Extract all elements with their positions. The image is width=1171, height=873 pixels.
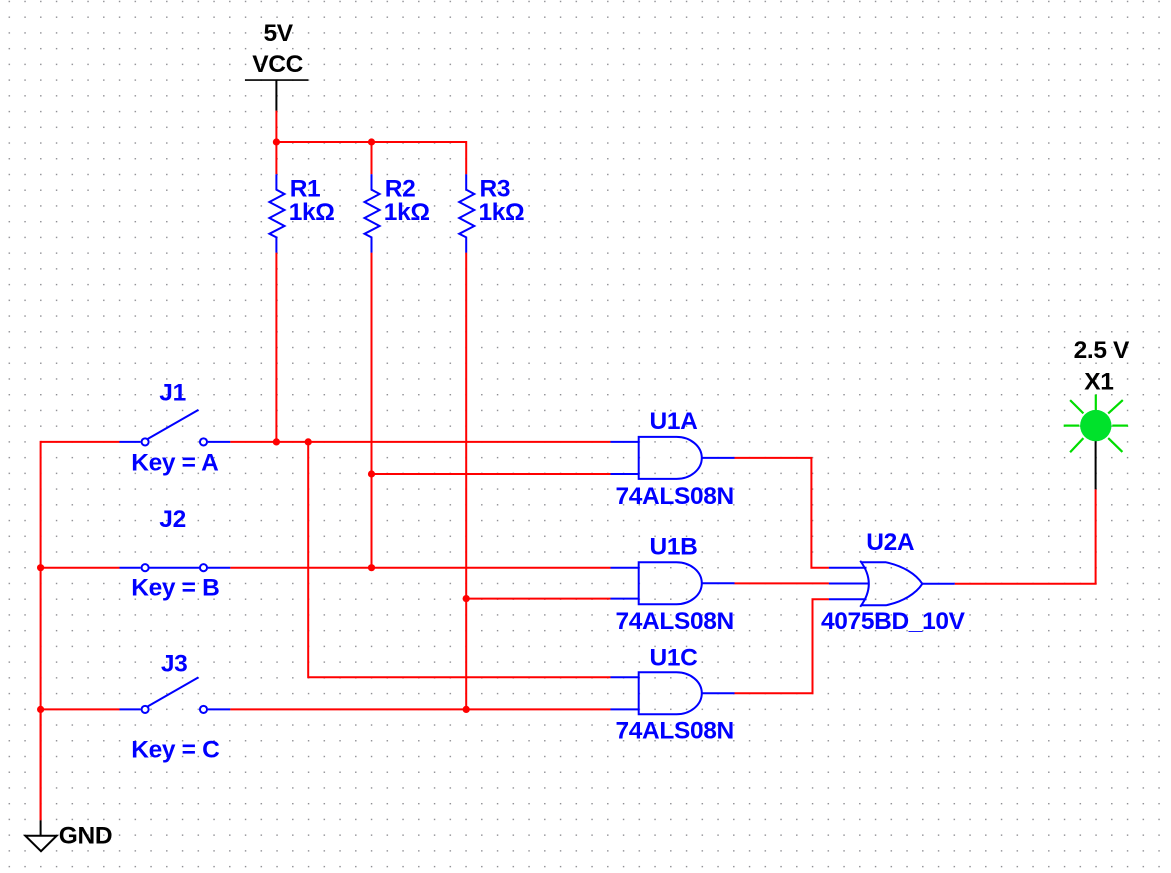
wire J3 right to U1C input 2 <box>230 708 610 710</box>
wire R2 bottom to J2 row <box>371 253 373 568</box>
and-gate U1B pins <box>611 568 735 599</box>
or-gate U2A pins <box>829 568 955 599</box>
junction node R3 / U1B input2 <box>463 595 470 602</box>
and-gate U1A pins <box>611 442 735 474</box>
wire branch from J1 row down to U1C input 1 <box>308 442 610 677</box>
svg-text:J3: J3 <box>161 651 188 678</box>
svg-text:74ALS08N: 74ALS08N <box>616 717 734 744</box>
wire R2 top <box>371 142 373 174</box>
wire U2A output to X1 <box>955 489 1096 583</box>
probe X1 lamp <box>1080 410 1111 441</box>
junction node R1/J1 row <box>273 438 280 445</box>
junction node top rail at R1 <box>273 138 280 145</box>
svg-text:1kΩ: 1kΩ <box>384 199 430 226</box>
svg-text:2.5 V: 2.5 V <box>1074 337 1130 364</box>
svg-text:74ALS08N: 74ALS08N <box>616 608 734 635</box>
wire J1 left <box>41 441 120 443</box>
wire GND red segment <box>40 709 42 820</box>
svg-text:J1: J1 <box>159 380 186 407</box>
svg-text:U1C: U1C <box>650 644 699 671</box>
svg-text:1kΩ: 1kΩ <box>479 199 525 226</box>
svg-text:U1A: U1A <box>650 408 699 435</box>
wire VCC pin red segment <box>275 111 277 143</box>
wire U1B output to U2A input 2 <box>735 582 829 584</box>
svg-text:5V: 5V <box>264 20 294 47</box>
wire J2 right to U1B input 1 <box>230 567 610 569</box>
junction node R2 end on J2 row <box>368 564 375 571</box>
svg-text:4075BD_10V: 4075BD_10V <box>821 608 966 635</box>
wire left bus <box>40 441 42 820</box>
power VCC symbol <box>245 80 308 111</box>
switch J2 (closed) <box>120 564 231 571</box>
resistor R1 <box>269 174 284 252</box>
wire top rail <box>275 141 466 143</box>
wire J2 left <box>41 567 120 569</box>
and-gate U1B body <box>639 562 702 604</box>
wire R2 tap to U1A input 2 <box>372 473 611 475</box>
junction node left bus / J3 row <box>37 706 44 713</box>
resistor R2 <box>365 174 380 252</box>
and-gate U1C pins <box>611 677 735 709</box>
wire U1C output to U2A input 3 <box>735 599 829 693</box>
svg-text:U1B: U1B <box>650 534 698 561</box>
wire J3 left <box>41 708 120 710</box>
ground symbol <box>40 820 42 835</box>
junction node R3 end on J3 row <box>463 706 470 713</box>
resistor R3 <box>459 174 474 252</box>
svg-text:VCC: VCC <box>252 51 303 78</box>
svg-text:U2A: U2A <box>866 529 915 556</box>
switch J3 <box>120 677 231 713</box>
svg-text:J2: J2 <box>159 506 186 533</box>
probe X1 pin <box>1095 430 1097 489</box>
junction node left bus / J2 row <box>37 564 44 571</box>
svg-text:Key = B: Key = B <box>131 575 219 602</box>
or-gate U2A body <box>860 561 922 607</box>
wire R1 top <box>275 142 277 174</box>
svg-text:74ALS08N: 74ALS08N <box>616 483 734 510</box>
switch J1 <box>120 410 231 446</box>
junction node R2 / U1A input2 <box>368 470 375 477</box>
wire J1 right to U1A input 1 <box>230 441 610 443</box>
junction node J1 row branch <box>305 438 312 445</box>
junction node top rail at R2 <box>368 138 375 145</box>
wire R3 bottom to J3 row <box>465 253 467 710</box>
svg-text:Key = C: Key = C <box>131 737 220 764</box>
wire R1 bottom to J1 row <box>275 253 277 442</box>
wire R3 top <box>465 141 467 174</box>
wire R3 tap to U1B input 2 <box>466 598 610 600</box>
svg-text:1kΩ: 1kΩ <box>289 199 335 226</box>
svg-text:Key = A: Key = A <box>131 450 219 477</box>
and-gate U1A body <box>639 437 702 479</box>
svg-text:X1: X1 <box>1084 369 1113 396</box>
and-gate U1C body <box>639 672 702 714</box>
svg-text:GND: GND <box>59 823 112 850</box>
wire U1A output to U2A input 1 <box>735 458 829 568</box>
probe X1 rays <box>1064 395 1128 453</box>
